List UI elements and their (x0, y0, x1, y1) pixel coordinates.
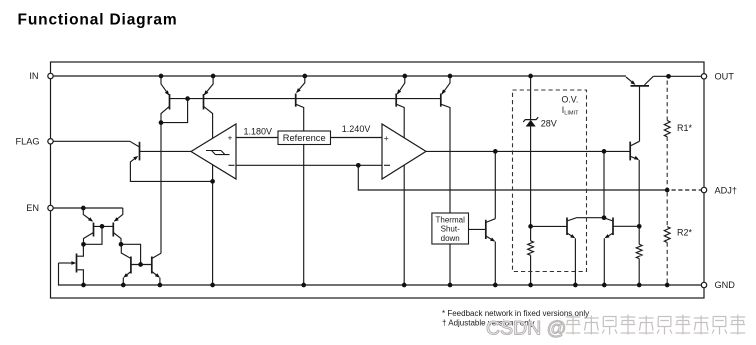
svg-text:CSDN @: CSDN @ (486, 318, 566, 340)
wire: Q2 collector vertical through U1 down to GND (204, 106, 213, 285)
transistor Q11 NPN driver (629, 142, 631, 161)
wire: Q13 collector-base diode link (84, 226, 103, 244)
transistor Q7 PNP thermal bias (440, 94, 442, 107)
wire: GND bottom rail (59, 263, 702, 285)
transistor Q9 NPN current limit left (566, 218, 568, 236)
wire: reference bias vertical through Reference box to GND (296, 104, 304, 285)
wire: Q5 emitter to GND-dropping node (130, 157, 212, 181)
junction dot ADJ node (665, 188, 670, 193)
transistor Q16 PNP pass output (631, 85, 650, 87)
junction dots U2 output nodes (493, 149, 498, 154)
wire: pass transistor base vertical (639, 86, 641, 141)
wire: Q1 collector-to-base diode link (161, 99, 188, 123)
svg-text:OUT: OUT (715, 72, 735, 82)
junction dots on GND rail (81, 283, 86, 288)
transistor Q1 PNP mirror left (169, 94, 171, 110)
svg-text:R1*: R1* (677, 123, 693, 133)
svg-text:EN: EN (26, 203, 39, 213)
pin OUT (701, 74, 706, 79)
junction dot inverting input node (356, 163, 361, 168)
wire: IN top rail (53, 75, 626, 77)
hysteresis symbol inside U1 (206, 151, 230, 155)
wire: U1 + input to Reference (1.180V) (236, 137, 278, 139)
wire: driver emitter vertical with resistor to GND upper part (638, 160, 640, 244)
transistor Q14 PNP enable right (112, 223, 114, 237)
svg-text:O.V.: O.V. (562, 94, 579, 104)
junction dot base rail node (185, 96, 190, 101)
svg-text:1.180V: 1.180V (244, 126, 273, 136)
junction dot Q14 collector node (119, 242, 124, 247)
svg-text:GND: GND (715, 280, 736, 290)
junction dot EN node (81, 206, 86, 211)
transistor Q3 PNP reference bias (295, 94, 297, 107)
transistor Q13 PNP enable left (93, 223, 95, 237)
svg-text:Reference: Reference (283, 133, 326, 143)
wire: dashed ADJ segment to ADJ pin (672, 189, 702, 191)
U1 minus input label (229, 164, 235, 166)
wire: zener branch vertical upper (530, 76, 532, 119)
wire: Q14 collector to mirror base node (121, 244, 141, 264)
svg-text:down: down (441, 234, 460, 243)
svg-text:+: + (384, 133, 389, 143)
transistor Q10 NPN current limit right (612, 218, 614, 236)
junction dot Q13 collector node (81, 242, 86, 247)
wire: Q13/Q14 base wire (94, 225, 114, 227)
transistor Q4 PNP above U2 (395, 94, 397, 107)
transistor Q12 NPN enable mirror right (151, 257, 153, 274)
junction dot U1 tail / flag emitter node (210, 179, 215, 184)
watermark chinese glyph strokes (566, 315, 745, 335)
svg-text:1.240V: 1.240V (342, 124, 371, 134)
resistor R1* upper feedback (666, 81, 668, 121)
outer border frame of functional block (51, 62, 705, 298)
transistor Q2 PNP mirror right (203, 94, 205, 110)
wire: thermal shutdown output to Q8 base (469, 228, 486, 230)
svg-text:ADJ†: ADJ† (715, 185, 737, 195)
wire: Reference to U2 + input (1.240V) (331, 137, 383, 139)
op-amp U2 error amplifier (382, 124, 426, 179)
junction dot enable mirror base node (138, 262, 143, 267)
svg-text:+: + (228, 133, 233, 143)
wire: FLAG pin to Q5 collector (53, 141, 139, 146)
junction dot Q1 collector node (159, 120, 164, 125)
wire: U2 output line (426, 150, 630, 152)
JFET J1 enable bias (76, 254, 78, 273)
resistor R3 current limit sense (528, 241, 534, 256)
svg-text:Functional Diagram: Functional Diagram (18, 12, 178, 29)
junction dot enable base node (100, 224, 105, 229)
wire: U1 - input / U2 - input shared (236, 164, 382, 166)
svg-text:IN: IN (29, 71, 38, 81)
junction dots on IN rail (159, 74, 164, 79)
pin IN (48, 73, 53, 78)
wire: driver emitter resistor bottom to GND (638, 259, 640, 285)
transistor Q12a NPN enable mirror left (130, 257, 132, 274)
wire: mirror collector node vertical (603, 151, 605, 217)
svg-text:FLAG: FLAG (16, 137, 40, 147)
wire: Q1 collector drop and long vertical to Q12 collector (161, 106, 170, 253)
svg-text:Thermal: Thermal (436, 216, 466, 225)
junction dot on OUT line (666, 74, 671, 79)
wire: EN pin wire (53, 207, 123, 209)
transistor Q5 PNP flag output (139, 142, 141, 161)
junction dot driver emitter node (637, 224, 642, 229)
pin ADJ (701, 187, 706, 192)
wire: mirror collector horizontal (576, 217, 604, 219)
wire: Q8 collector vertical to U2 output (494, 151, 496, 218)
wire: current limit base wire to Q9 (531, 225, 567, 227)
wire: zener branch resistor bottom to GND (530, 255, 532, 285)
wire: inverting node drop to ADJ line (358, 165, 667, 190)
resistor R4 driver emitter (636, 244, 642, 258)
O.V. I-LIMIT dashed box (513, 90, 587, 272)
svg-text:Shut-: Shut- (441, 225, 460, 234)
wire: OUT segment from pass transistor to OUT pin (653, 75, 701, 77)
thermal shutdown box U4 (432, 213, 469, 244)
wire: Q6 collector vertical through U2 to GND (396, 104, 404, 285)
svg-text:R2*: R2* (677, 228, 693, 238)
wire: zener branch vertical lower with node (530, 127, 532, 241)
wire: Q10 base wire to driver emitter node (613, 225, 639, 227)
transistor Q8 NPN thermal shutdown (485, 220, 487, 239)
reference box U3 (278, 131, 331, 145)
wire: Q7 collector vertical through Thermal Shutdown to GND (441, 104, 450, 285)
U2 minus input label (384, 164, 390, 166)
pin GND (701, 282, 706, 287)
svg-text:28V: 28V (541, 118, 557, 128)
zener diode D1 28V (523, 117, 538, 122)
junction dot mirror collector node (602, 215, 607, 220)
op-amp U1 comparator with hysteresis (191, 124, 236, 179)
resistor R2* lower feedback (666, 192, 668, 227)
wire: shared PNP base rail (170, 98, 441, 100)
junction dot current limit base node (528, 224, 533, 229)
wire: enable mirror base wire (131, 264, 152, 266)
pin EN (48, 205, 53, 210)
pin FLAG (48, 139, 53, 144)
wire: U1 output to Q5 base (140, 150, 191, 152)
